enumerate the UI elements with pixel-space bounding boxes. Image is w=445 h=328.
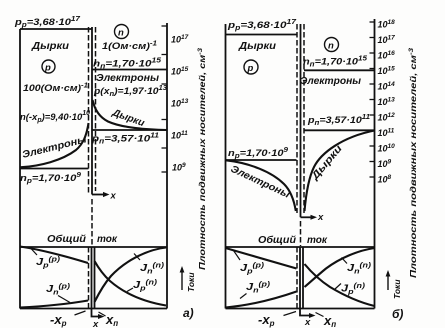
box solid 1 b with x arrow xyxy=(300,247,310,316)
junction solid b xyxy=(300,24,302,217)
svg-text:р: р xyxy=(44,63,51,74)
svg-text:1(Ом·см)-1: 1(Ом·см)-1 xyxy=(102,41,157,53)
n_p line b xyxy=(226,159,297,161)
J_n^(p) curve b xyxy=(226,292,297,308)
right axis b xyxy=(374,19,376,309)
p_p level line xyxy=(20,28,92,30)
svg-text:x: x xyxy=(92,319,99,328)
arrowhead lower x axis (panel a) xyxy=(98,314,105,319)
J_n^(p) curve xyxy=(20,301,88,308)
svg-text:ток: ток xyxy=(97,234,118,245)
arrowhead lower x axis (panel b) xyxy=(309,313,316,318)
J_p^(p) curve xyxy=(20,247,88,264)
svg-text:Общий: Общий xyxy=(47,233,86,245)
svg-text:Токи: Токи xyxy=(186,272,196,292)
p_n level line xyxy=(93,129,168,131)
svg-text:p(xn)=1,97·1013: p(xn)=1,97·1013 xyxy=(93,85,167,98)
svg-text:р: р xyxy=(247,63,254,74)
p_p line b xyxy=(226,34,297,36)
box bottom b xyxy=(226,308,375,310)
J_n^(n) curve xyxy=(95,248,167,303)
svg-text:Плотность подвижных носителей,: Плотность подвижных носителей, см-3 xyxy=(408,47,418,278)
leader J_n^(n) xyxy=(134,254,140,261)
junction dashed L_n xyxy=(95,27,97,191)
lower box bottom xyxy=(20,308,167,310)
svg-text:x: x xyxy=(110,191,117,202)
svg-text:Плотность подвижных носителей,: Плотность подвижных носителей, см-3 xyxy=(197,47,207,270)
junction dashed -L_p xyxy=(88,27,90,194)
leader J_n^(p) xyxy=(58,296,70,303)
box dashed b xyxy=(296,247,298,309)
box dashed line xyxy=(88,247,90,309)
svg-text:а): а) xyxy=(183,306,194,320)
arrowhead upper x axis (panel b) xyxy=(311,215,318,220)
Toki arrow a xyxy=(181,272,183,290)
axis ticks b xyxy=(370,22,375,177)
J_n^(n) curve b xyxy=(305,248,375,287)
n_n line b xyxy=(304,69,375,71)
svg-text:б): б) xyxy=(392,307,403,321)
holes curve n-side xyxy=(93,100,168,130)
lower box top xyxy=(20,246,167,248)
svg-text:Электроны: Электроны xyxy=(96,73,159,84)
arrowhead upper x axis (panel a) xyxy=(103,192,110,197)
x axis arrow upper b xyxy=(301,216,312,218)
middle dashed b xyxy=(300,221,302,246)
arrowhead Toki (panel b) xyxy=(386,270,391,277)
svg-text:Общий: Общий xyxy=(258,234,296,246)
box solid line 1 with x arrow below xyxy=(92,247,99,317)
svg-text:100(Ом·см)-1: 100(Ом·см)-1 xyxy=(23,83,88,95)
box solid line 2 xyxy=(94,247,96,309)
Toki arrow b xyxy=(387,276,389,290)
circled p b xyxy=(244,60,258,74)
leader -x_p a xyxy=(75,311,86,315)
junction solid x=0 xyxy=(91,27,93,195)
box top b xyxy=(226,246,375,248)
leader J_p^(p) xyxy=(31,249,37,256)
electron curve b xyxy=(226,160,296,211)
leaders b xyxy=(234,251,241,261)
circled p xyxy=(42,60,55,73)
svg-text:Электроны: Электроны xyxy=(300,76,361,87)
middle dashed line xyxy=(91,199,93,246)
right axis xyxy=(166,23,168,309)
leader x_n a xyxy=(99,312,106,316)
junction dashed left b xyxy=(296,24,298,213)
p_n line b xyxy=(304,129,375,131)
svg-text:x: x xyxy=(317,212,324,223)
junction dashed right b xyxy=(303,24,305,213)
svg-text:ток: ток xyxy=(307,235,328,246)
svg-text:Дырки: Дырки xyxy=(238,41,276,52)
leader J_p^(n) xyxy=(127,288,133,292)
left boundary xyxy=(19,29,21,309)
circled n xyxy=(115,25,129,39)
n_p level line xyxy=(20,168,89,170)
svg-text:x: x xyxy=(304,317,311,328)
n_n level line xyxy=(92,69,167,71)
electron curve p-side xyxy=(20,123,89,167)
box solid 2 b xyxy=(302,247,304,309)
J_p^(n) curve xyxy=(95,261,167,306)
J_p^(n) curve b xyxy=(305,264,375,306)
axis ticks panel a xyxy=(162,26,168,172)
J_p^(p) curve b xyxy=(226,248,297,269)
arrowhead Toki (panel a) xyxy=(180,266,185,273)
svg-text:n: n xyxy=(328,41,334,52)
circled n b xyxy=(325,38,339,52)
holes curve b xyxy=(305,131,375,212)
left boundary b xyxy=(225,24,227,309)
svg-text:Дырки: Дырки xyxy=(31,41,69,52)
svg-text:Токи: Токи xyxy=(392,279,402,299)
svg-text:n(-xр)=9,40·1010: n(-xр)=9,40·1010 xyxy=(20,110,90,124)
svg-text:n: n xyxy=(118,28,124,39)
x axis arrow upper xyxy=(92,194,104,196)
